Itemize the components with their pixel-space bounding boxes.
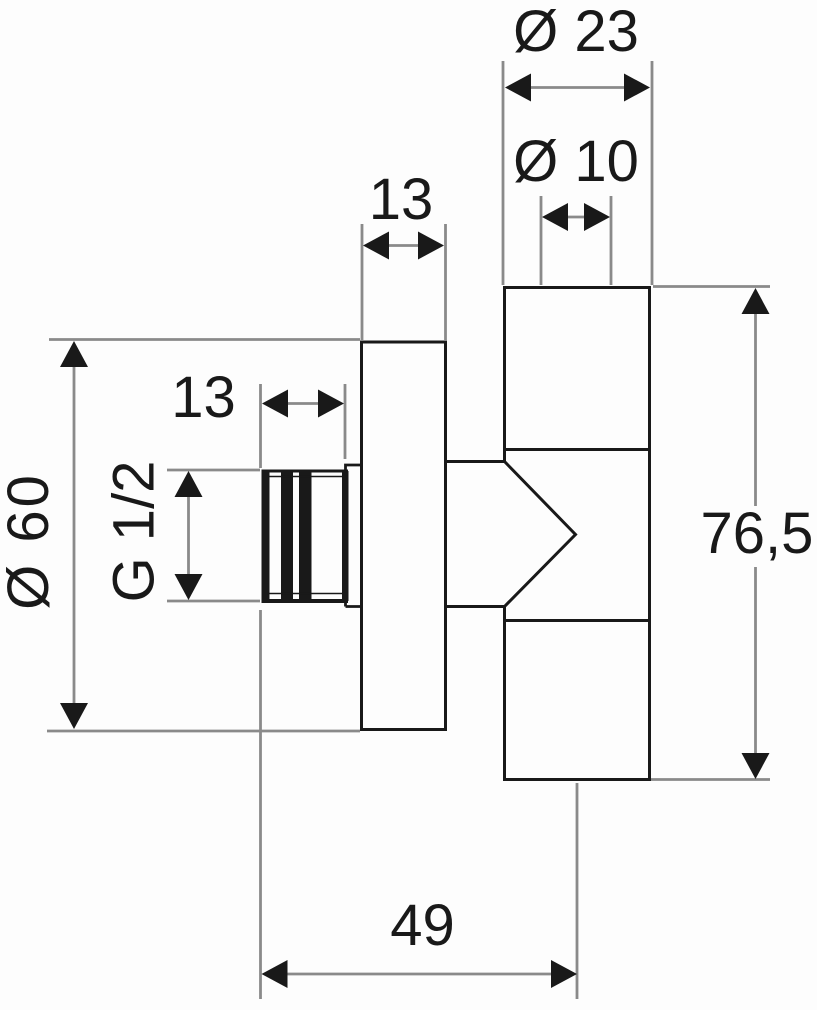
arrowhead 13 plate left xyxy=(363,232,389,260)
extension line G12 top xyxy=(167,469,260,472)
dimension line 13 plate xyxy=(388,244,419,247)
arrowhead G12 bottom xyxy=(175,574,203,600)
svg-text:76,5: 76,5 xyxy=(701,501,814,566)
thread bottom edge xyxy=(262,599,349,603)
dimension line 76.5 lower xyxy=(754,567,757,753)
extension line dia10 right xyxy=(610,196,613,285)
body left edge upper xyxy=(503,286,506,462)
dimension line G12 xyxy=(187,497,190,575)
thread stripe 3 xyxy=(299,471,312,601)
extension line dia60 top xyxy=(49,338,360,341)
thread stripe 2 xyxy=(281,471,293,601)
extension line G12 bottom xyxy=(167,600,260,603)
svg-text:G 1/2: G 1/2 xyxy=(102,461,167,603)
dimension line dia10 xyxy=(566,216,586,219)
extension line 13 plate left xyxy=(361,224,364,340)
arrowhead 13 plate right xyxy=(418,232,444,260)
arrowhead dia10 left xyxy=(542,203,568,231)
body division line lower xyxy=(505,619,650,622)
extension line 49 right xyxy=(576,783,579,999)
dimension line 13 thread xyxy=(287,402,318,405)
arrowhead 49 left xyxy=(262,960,288,988)
svg-text:13: 13 xyxy=(171,365,236,430)
svg-text:Ø 10: Ø 10 xyxy=(513,129,639,194)
extension line 76.5 top xyxy=(653,285,770,288)
thread root line top xyxy=(267,476,343,478)
extension line dia60 bottom xyxy=(47,730,360,733)
arrowhead dia10 right xyxy=(584,203,610,231)
extension line 76.5 bottom xyxy=(651,778,770,781)
body division line upper xyxy=(505,448,650,451)
extension line dia10 left xyxy=(540,196,543,285)
extension line 13 thread right xyxy=(344,384,347,459)
dimension line 76.5 upper xyxy=(754,314,757,506)
svg-text:Ø 60: Ø 60 xyxy=(0,472,61,610)
extension line dia23 right xyxy=(651,61,654,285)
extension line 49 left xyxy=(259,610,262,999)
svg-text:Ø 23: Ø 23 xyxy=(513,0,639,64)
dimension line dia60 xyxy=(73,367,76,703)
arrowhead 49 right xyxy=(551,960,577,988)
arrowhead dia60 top xyxy=(60,341,88,367)
extension line 13 plate right xyxy=(444,224,447,340)
body top edge xyxy=(503,286,651,289)
svg-text:13: 13 xyxy=(369,167,434,232)
body right edge xyxy=(648,286,651,781)
plate rosette xyxy=(362,342,446,730)
arrowhead dia60 bottom xyxy=(60,703,88,729)
thread stripe left edge xyxy=(262,471,270,601)
inlet pentagon xyxy=(446,462,576,607)
body bottom edge xyxy=(503,778,651,781)
svg-text:49: 49 xyxy=(390,893,455,958)
arrowhead 13 thread left xyxy=(262,390,288,418)
thread flange xyxy=(346,465,362,607)
extension line dia23 left xyxy=(502,61,505,285)
arrowhead G12 top xyxy=(175,471,203,497)
arrowhead 76.5 bottom xyxy=(742,753,770,779)
extension line 13 thread left xyxy=(259,384,262,468)
arrowhead dia23 right xyxy=(624,74,650,102)
thread root line bottom xyxy=(267,593,343,595)
body left edge lower xyxy=(503,607,506,782)
thread stripe right edge xyxy=(342,471,349,601)
arrowhead 76.5 top xyxy=(742,288,770,314)
arrowhead dia23 left xyxy=(505,74,531,102)
dimension line 49 xyxy=(287,973,551,976)
dimension line dia23 xyxy=(530,86,625,89)
thread top edge xyxy=(262,470,349,473)
arrowhead 13 thread right xyxy=(318,390,344,418)
